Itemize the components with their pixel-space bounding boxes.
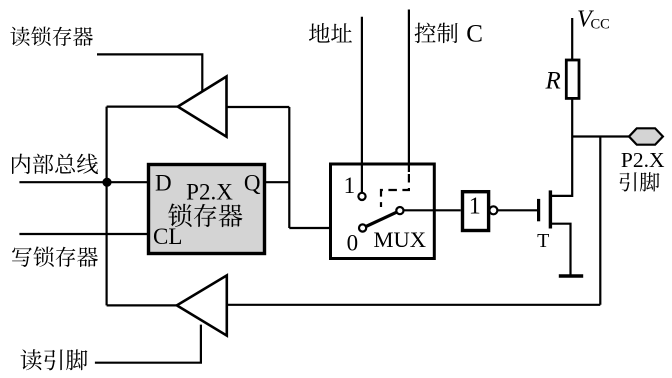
label 引脚 (pin) xyxy=(619,172,636,191)
svg-text:CL: CL xyxy=(153,224,182,249)
label 写锁存器 xyxy=(12,247,32,266)
wire: riser to MUX 0 input xyxy=(289,227,359,229)
svg-text:D: D xyxy=(155,171,172,196)
wire: Vcc lead xyxy=(571,18,573,61)
svg-text:R: R xyxy=(545,67,561,94)
wire: buffer U3 output to internal bus xyxy=(107,105,178,107)
ground xyxy=(559,274,583,278)
svg-text:P2.X: P2.X xyxy=(186,180,233,205)
wire: read-latch control lead xyxy=(97,54,202,91)
label 读引脚 xyxy=(21,349,42,370)
buffer U3 (read latch tri-state) xyxy=(178,77,227,137)
svg-text:CC: CC xyxy=(591,17,610,33)
wire: node to pin hexagon xyxy=(572,135,629,137)
transistor T channel bar xyxy=(549,190,552,228)
label 地址 xyxy=(309,23,330,43)
svg-text:1: 1 xyxy=(344,173,356,198)
wire: source lead to ground xyxy=(552,224,571,275)
MUX box U2 xyxy=(331,164,435,259)
wire: Q output to riser xyxy=(266,181,289,183)
label 内部总线 xyxy=(12,154,30,174)
latch U1 box xyxy=(149,165,265,254)
svg-text:1: 1 xyxy=(469,194,481,220)
inverter bubble xyxy=(489,206,497,214)
wire: address line xyxy=(361,17,363,193)
wire: drain lead to pull-up node xyxy=(552,137,573,196)
svg-text:C: C xyxy=(466,21,483,48)
label 控制 C xyxy=(415,23,436,44)
MUX contact 0 circle xyxy=(359,224,366,231)
wire: vertical bus riser xyxy=(105,107,107,306)
wire: control dashed path to switch xyxy=(381,174,409,207)
wire: resistor to pin node xyxy=(571,98,573,136)
wire: MUX output to inverter xyxy=(404,209,461,211)
transistor T gate bar xyxy=(537,199,540,221)
wire: read-pin control lead xyxy=(95,325,201,363)
pin hexagon P2.X xyxy=(629,128,663,144)
wire: pin riser down xyxy=(599,137,601,305)
wire: control line (solid) xyxy=(408,10,410,173)
label 读锁存器 xyxy=(10,27,29,46)
resistor R xyxy=(566,60,579,98)
MUX switch wiper xyxy=(366,212,397,226)
svg-text:Q: Q xyxy=(244,171,261,196)
wire: pin to buffer U5 input xyxy=(227,304,601,306)
wire: internal bus input xyxy=(19,181,147,183)
wire: inverter output to gate xyxy=(498,209,537,211)
node: internal bus junction dot xyxy=(102,178,111,187)
svg-text:0: 0 xyxy=(347,230,359,255)
MUX contact 1 circle xyxy=(358,193,365,200)
svg-text:P2.X: P2.X xyxy=(621,148,665,172)
wire: Q riser and buffer U3 input xyxy=(227,107,290,228)
svg-text:MUX: MUX xyxy=(374,227,427,252)
label 锁存器 in latch xyxy=(168,204,191,227)
svg-text:T: T xyxy=(537,230,549,252)
inverter U4 box xyxy=(463,192,489,231)
wire: buffer U5 output xyxy=(107,304,177,306)
MUX common contact circle xyxy=(396,207,403,214)
wire: write-latch CL lead xyxy=(19,233,147,235)
buffer U5 (read pin tri-state) xyxy=(177,275,227,335)
